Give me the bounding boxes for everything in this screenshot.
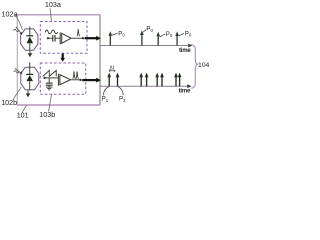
light squiggle 102b <box>14 71 19 73</box>
dashed box 103a <box>40 22 87 54</box>
wire dot to amp (103b) <box>45 77 59 79</box>
pulse spike symbol (single) in 103a <box>77 29 80 36</box>
svg-text:103b: 103b <box>39 110 55 119</box>
ground symbol (103b) <box>46 86 52 88</box>
leader P0-2 <box>143 29 146 32</box>
svg-text:103a: 103a <box>45 0 61 9</box>
leader 102a <box>15 15 23 30</box>
leader 102b <box>13 87 21 100</box>
svg-text:102b: 102b <box>1 98 17 107</box>
leader P1 arc <box>103 87 109 96</box>
thick down arrow 103a to 103b <box>62 53 64 58</box>
svg-text:102a: 102a <box>2 9 18 18</box>
node dot 103a input <box>47 37 49 39</box>
delta-t double arrow <box>109 70 115 72</box>
wire below 102a with down arrow <box>29 51 31 54</box>
pulse pair 4 <box>175 77 177 87</box>
leader P0-4 <box>179 33 184 36</box>
laser diode 102b ellipse <box>21 67 39 90</box>
pulse pair 3 <box>156 77 158 87</box>
pulse spike symbol (double) in 103b <box>73 71 76 78</box>
capacitor C in 103a (series, vertical plates) <box>52 35 54 42</box>
leader 103b <box>49 95 52 112</box>
svg-text:104: 104 <box>198 62 209 69</box>
pulse P0 arrow 2 <box>141 34 143 45</box>
outer box 101 right edge <box>99 15 101 105</box>
sine source symbol in 103a <box>45 30 58 34</box>
bottom time axis <box>100 85 189 87</box>
outer box 101 left edge <box>16 15 18 105</box>
outer box 101 bottom edge <box>17 104 100 106</box>
svg-text:time: time <box>179 48 191 54</box>
leader P0-1 <box>112 33 118 35</box>
leader P0-3 <box>160 34 165 37</box>
wire through diode (102a) <box>29 27 31 36</box>
outer box 101 top edge <box>17 14 100 16</box>
leader 101 <box>22 105 26 112</box>
wire through diode (102b) <box>29 62 31 74</box>
laser diode 102a ellipse <box>21 29 38 50</box>
ground stub (103b) <box>48 85 50 87</box>
thick output arrow from 103b <box>82 79 97 81</box>
output wire of 103b amp <box>70 79 80 81</box>
thick output arrow from 103a <box>85 37 97 39</box>
light input arrow to 102a <box>16 27 21 33</box>
leader 103a <box>50 8 52 21</box>
light input arrow to 102b <box>15 68 21 73</box>
capacitor C in 103b (shunt, horizontal plates) <box>46 82 53 84</box>
diode triangle (102b) <box>26 75 33 81</box>
diode cathode bar (102b) <box>26 73 33 75</box>
amplifier U2 in 103b <box>57 74 59 86</box>
dashed box 103b <box>40 63 85 94</box>
output wire of 103a amp <box>71 37 83 39</box>
sawtooth source symbol in 103b <box>43 70 57 76</box>
light squiggle 102a <box>13 29 18 31</box>
pulse P0 arrow 3 <box>157 36 159 46</box>
leader P2 arc <box>118 87 123 96</box>
pulse P0 arrow 4 <box>176 35 178 45</box>
node dot 103a output <box>82 37 84 39</box>
pulse pair 1 arrows P1 P2 <box>108 77 110 87</box>
amplifier U1 in 103a <box>59 32 61 44</box>
node dot 103b input <box>44 77 46 79</box>
top time axis <box>100 45 190 47</box>
pulse pair 2 <box>140 77 142 87</box>
brace 104 <box>191 45 198 89</box>
pulse P0 arrow 1 <box>109 35 111 46</box>
wire below 102b with down arrow <box>27 90 29 94</box>
wire capacitor to amp (103a) <box>55 37 60 39</box>
node dot 103b output <box>79 79 81 81</box>
diode triangle (102a) <box>27 37 34 44</box>
wire dot to capacitor (103a) <box>48 37 53 39</box>
capacitor stub (103b) <box>48 78 50 83</box>
diode cathode bar (102a) <box>26 35 33 37</box>
svg-text:time: time <box>179 88 191 94</box>
